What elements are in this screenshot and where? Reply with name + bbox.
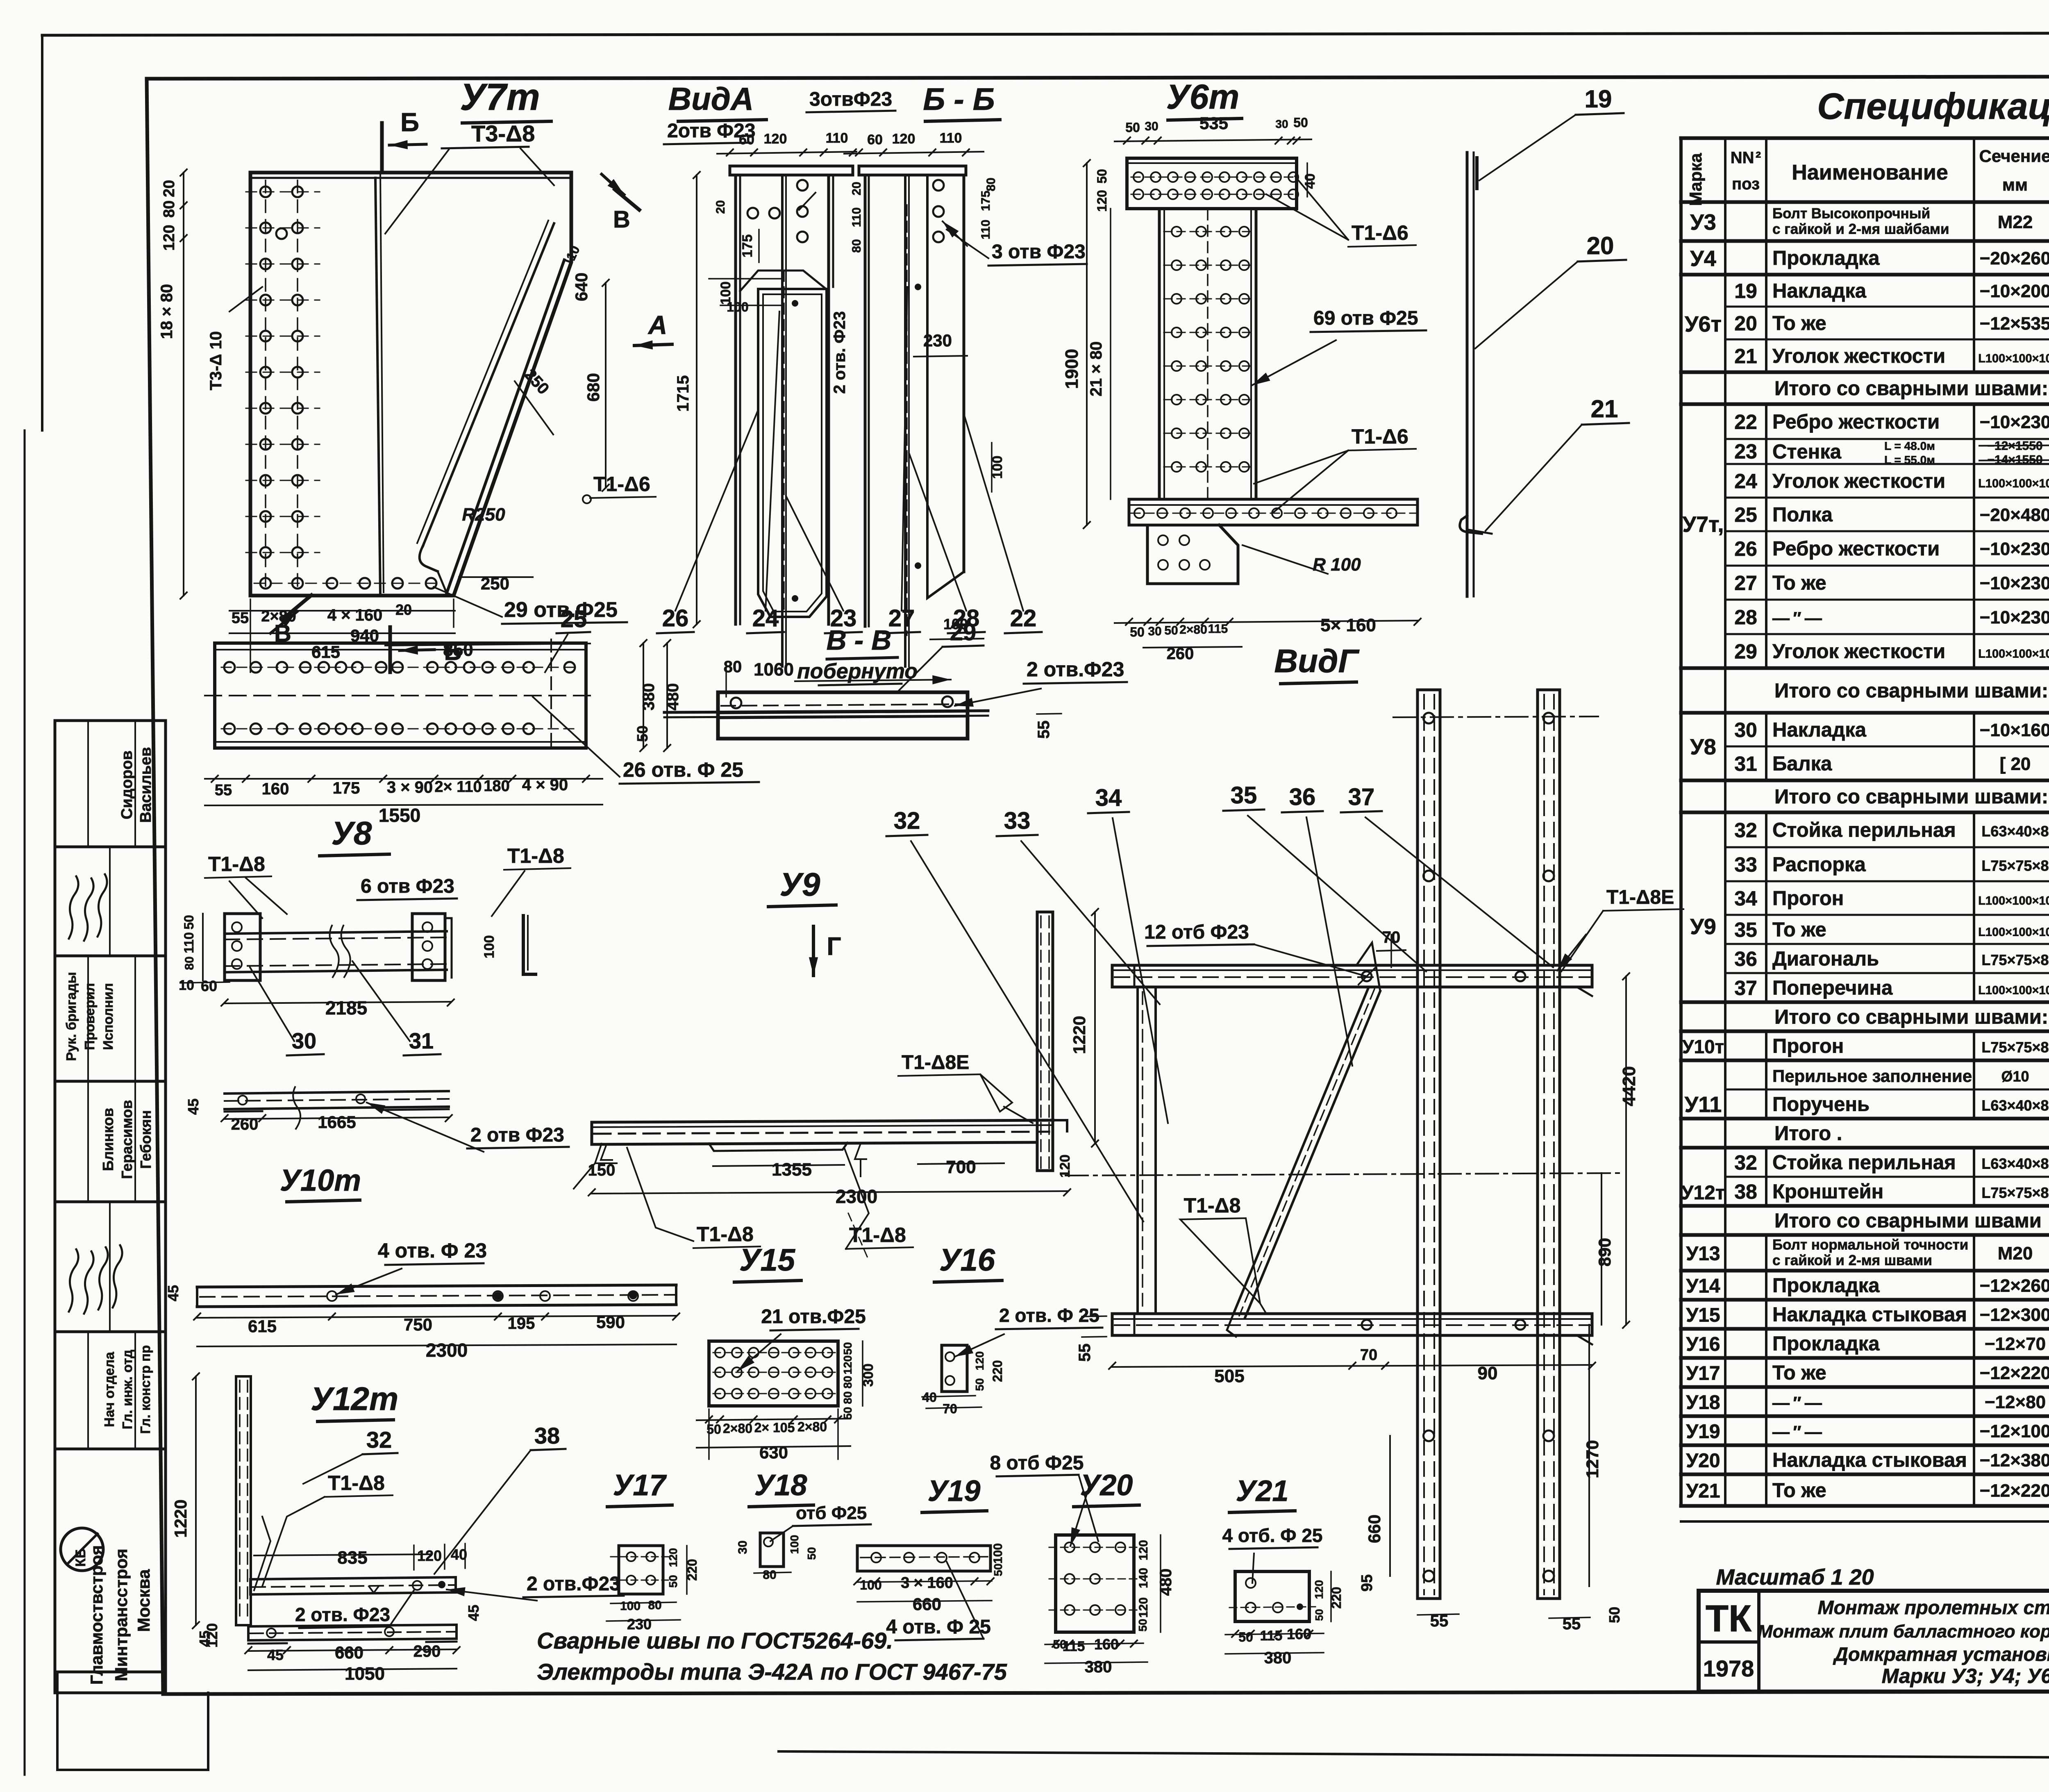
svg-text:L100×100×10: L100×100×10 <box>1978 984 2049 997</box>
svg-text:835: 835 <box>337 1548 367 1568</box>
frame Vid G ladder <box>886 643 1683 1633</box>
svg-text:30: 30 <box>1275 118 1288 130</box>
svg-text:12 отб Ф23: 12 отб Ф23 <box>1144 921 1249 943</box>
svg-text:80: 80 <box>841 1376 854 1388</box>
svg-text:6 отв Ф23: 6 отв Ф23 <box>361 876 454 897</box>
svg-text:1060: 1060 <box>754 659 794 680</box>
svg-text:45: 45 <box>196 1631 213 1647</box>
svg-text:У19: У19 <box>1686 1421 1720 1443</box>
svg-text:1665: 1665 <box>318 1112 356 1132</box>
svg-text:L100×100×10: L100×100×10 <box>1978 894 2049 907</box>
svg-text:Рук. бригады: Рук. бригады <box>64 972 79 1061</box>
svg-text:с гайкой и 2-мя швами: с гайкой и 2-мя швами <box>1772 1253 1932 1269</box>
svg-text:110: 110 <box>826 130 848 146</box>
svg-text:То же: То же <box>1772 1362 1826 1384</box>
svg-text:Домкратная установка. Детали: Домкратная установка. Детали . <box>1833 1643 2049 1665</box>
svg-text:180: 180 <box>484 778 509 795</box>
svg-text:32: 32 <box>894 807 920 834</box>
svg-text:Стойка перильная: Стойка перильная <box>1772 819 1956 841</box>
svg-text:660: 660 <box>335 1643 363 1662</box>
svg-text:L100×100×10: L100×100×10 <box>1978 926 2049 939</box>
svg-text:2 отв. Ф 25: 2 отв. Ф 25 <box>999 1305 1099 1326</box>
svg-text:−10×230: −10×230 <box>1980 607 2049 628</box>
svg-text:ТК: ТК <box>1706 1598 1752 1640</box>
svg-text:50: 50 <box>1125 120 1140 135</box>
svg-text:50: 50 <box>1313 1609 1325 1621</box>
svg-text:Накладка стыковая: Накладка стыковая <box>1772 1304 1967 1326</box>
svg-text:L63×40×8: L63×40×8 <box>1981 1097 2049 1114</box>
svg-text:45: 45 <box>185 1098 202 1115</box>
svg-text:80: 80 <box>161 200 178 218</box>
svg-text:Гл. инж. отд: Гл. инж. отд <box>120 1350 135 1429</box>
svg-text:110: 110 <box>940 130 962 146</box>
svg-text:80: 80 <box>850 239 863 252</box>
svg-text:[ 20: [ 20 <box>2000 754 2031 774</box>
svg-text:35: 35 <box>1734 919 1757 941</box>
svg-text:То же: То же <box>1772 572 1826 594</box>
svg-text:Т1-Δ6: Т1-Δ6 <box>1352 221 1408 244</box>
svg-text:Б: Б <box>400 107 419 137</box>
svg-text:— ″ —: — ″ — <box>1772 1393 1822 1412</box>
svg-text:То же: То же <box>1772 1480 1826 1502</box>
svg-text:L75×75×8: L75×75×8 <box>1981 1039 2049 1056</box>
svg-text:−12×70: −12×70 <box>1985 1334 2046 1354</box>
svg-text:120: 120 <box>1137 1597 1150 1618</box>
svg-text:29: 29 <box>1734 640 1757 663</box>
svg-text:Исполнил: Исполнил <box>100 983 116 1050</box>
svg-text:750: 750 <box>404 1315 432 1334</box>
svg-text:20: 20 <box>161 180 178 197</box>
svg-text:30: 30 <box>736 1540 750 1554</box>
svg-text:140: 140 <box>1137 1568 1150 1588</box>
plate U7t <box>158 76 672 672</box>
svg-text:У15: У15 <box>1686 1305 1720 1326</box>
svg-text:34: 34 <box>1734 887 1757 910</box>
svg-text:Сечение: Сечение <box>1979 146 2049 166</box>
svg-text:−12×100: −12×100 <box>1980 1421 2049 1442</box>
svg-text:L75×75×8: L75×75×8 <box>1981 857 2049 874</box>
svg-text:45: 45 <box>465 1605 482 1621</box>
svg-text:21 отв.Ф25: 21 отв.Ф25 <box>761 1306 866 1328</box>
svg-text:−12×220: −12×220 <box>1980 1481 2049 1501</box>
svg-text:21: 21 <box>1734 345 1757 368</box>
svg-text:ВидА: ВидА <box>668 81 754 117</box>
svg-text:2× 110: 2× 110 <box>434 778 482 796</box>
svg-text:80: 80 <box>841 1391 854 1404</box>
svg-text:2 отв. Ф23: 2 отв. Ф23 <box>831 311 849 394</box>
beam U9 <box>574 866 1098 1260</box>
svg-text:Прогон: Прогон <box>1772 1035 1844 1057</box>
svg-text:Монтаж плит балластного корыта: Монтаж плит балластного корыта с клеевым… <box>1758 1621 2049 1642</box>
svg-text:ВидГ: ВидГ <box>1274 643 1360 679</box>
svg-text:25: 25 <box>561 606 587 632</box>
svg-text:700: 700 <box>946 1157 976 1177</box>
svg-text:50: 50 <box>1130 625 1145 639</box>
svg-text:1355: 1355 <box>772 1160 812 1180</box>
svg-text:31: 31 <box>409 1029 434 1053</box>
svg-text:26 отв. Ф 25: 26 отв. Ф 25 <box>623 758 743 781</box>
svg-text:У20: У20 <box>1080 1469 1133 1502</box>
svg-text:220: 220 <box>990 1360 1005 1382</box>
svg-text:19: 19 <box>1734 280 1757 302</box>
svg-text:У15: У15 <box>739 1243 796 1278</box>
svg-text:Прокладка: Прокладка <box>1772 1275 1880 1297</box>
svg-text:660: 660 <box>1365 1515 1384 1543</box>
svg-text:То же: То же <box>1772 312 1826 334</box>
svg-text:2×80: 2×80 <box>1179 623 1207 637</box>
svg-text:120: 120 <box>973 1351 986 1371</box>
svg-text:4420: 4420 <box>1619 1066 1639 1106</box>
svg-text:1220: 1220 <box>1070 1016 1089 1054</box>
svg-text:Ø10: Ø10 <box>2001 1068 2029 1085</box>
svg-text:Г: Г <box>827 932 841 961</box>
svg-text:У21: У21 <box>1686 1480 1720 1502</box>
svg-text:Итого .: Итого . <box>1774 1123 1842 1145</box>
svg-text:120: 120 <box>764 131 787 147</box>
svg-text:1550: 1550 <box>379 805 420 826</box>
svg-text:175: 175 <box>333 779 360 797</box>
svg-text:Уголок жесткости: Уголок жесткости <box>1772 470 1945 492</box>
svg-text:590: 590 <box>596 1312 625 1332</box>
svg-text:90: 90 <box>1478 1363 1498 1383</box>
svg-text:2185: 2185 <box>325 997 367 1019</box>
svg-text:50: 50 <box>1293 115 1308 130</box>
svg-text:Кронштейн: Кронштейн <box>1772 1181 1883 1203</box>
section B-B view <box>657 82 1087 666</box>
svg-text:4 × 90: 4 × 90 <box>522 776 568 794</box>
svg-text:4 отв. Ф 23: 4 отв. Ф 23 <box>378 1239 487 1262</box>
svg-text:55: 55 <box>215 782 232 799</box>
svg-text:615: 615 <box>248 1317 277 1336</box>
svg-text:— ″ —: — ″ — <box>1772 1422 1822 1442</box>
svg-text:36: 36 <box>1289 784 1316 810</box>
svg-text:отб Ф25: отб Ф25 <box>796 1503 867 1523</box>
svg-text:Т1-Δ8: Т1-Δ8 <box>1184 1194 1241 1217</box>
svg-text:У12т: У12т <box>311 1380 398 1417</box>
svg-text:80: 80 <box>648 1599 661 1612</box>
svg-text:L100×100×10: L100×100×10 <box>1978 352 2049 365</box>
plate U21 <box>1222 1475 1344 1667</box>
svg-text:55: 55 <box>1076 1344 1094 1362</box>
svg-text:У7т,: У7т, <box>1682 512 1724 537</box>
plate U17 <box>607 1469 700 1633</box>
svg-text:L100×100×10: L100×100×10 <box>1978 648 2049 661</box>
svg-text:Итого со сварными швами:: Итого со сварными швами: <box>1774 786 2048 808</box>
svg-text:М20: М20 <box>1998 1244 2033 1264</box>
svg-text:50: 50 <box>1053 1638 1066 1651</box>
svg-text:1715: 1715 <box>674 375 692 412</box>
svg-text:505: 505 <box>1214 1366 1244 1386</box>
svg-text:3 × 90: 3 × 90 <box>387 778 433 796</box>
svg-text:Герасимов: Герасимов <box>118 1100 135 1179</box>
svg-text:В: В <box>613 206 630 233</box>
svg-text:60: 60 <box>201 978 217 994</box>
svg-text:18 × 80: 18 × 80 <box>158 284 176 339</box>
svg-text:Поручень: Поручень <box>1772 1094 1870 1116</box>
svg-text:10: 10 <box>179 978 194 993</box>
svg-text:−10×230: −10×230 <box>1980 412 2049 432</box>
svg-text:У8: У8 <box>332 815 372 851</box>
svg-text:Т1-Δ8Е: Т1-Δ8Е <box>1606 887 1674 908</box>
svg-text:−12×535: −12×535 <box>1980 314 2049 334</box>
svg-text:120: 120 <box>161 225 178 250</box>
svg-text:28: 28 <box>1734 606 1757 629</box>
svg-text:890: 890 <box>1595 1238 1614 1267</box>
svg-text:Сидоров: Сидоров <box>118 750 136 819</box>
svg-text:50: 50 <box>1606 1607 1623 1623</box>
svg-text:8 отб Ф25: 8 отб Ф25 <box>990 1452 1084 1474</box>
svg-text:70: 70 <box>943 1401 957 1416</box>
svg-text:120: 120 <box>892 131 915 147</box>
svg-text:1220: 1220 <box>171 1499 190 1537</box>
svg-text:Минтрансстроя: Минтрансстроя <box>111 1549 131 1681</box>
svg-text:24: 24 <box>1734 470 1757 493</box>
svg-text:мм: мм <box>2002 175 2028 194</box>
svg-text:290: 290 <box>413 1642 441 1660</box>
svg-text:У4: У4 <box>1690 246 1716 271</box>
svg-text:Т1-Δ8: Т1-Δ8 <box>507 844 564 867</box>
svg-text:100: 100 <box>482 935 497 959</box>
side view bar items 19-21 <box>1460 85 1629 596</box>
svg-text:Уголок жесткости: Уголок жесткости <box>1772 345 1945 367</box>
svg-text:−10×230: −10×230 <box>1980 573 2049 594</box>
svg-text:535: 535 <box>1199 114 1228 133</box>
svg-text:КБ: КБ <box>73 1548 89 1567</box>
plate U18 <box>736 1469 871 1582</box>
svg-text:М22: М22 <box>1998 212 2033 232</box>
svg-text:У6т: У6т <box>1685 312 1722 337</box>
svg-text:Монтаж пролетных строений 1: Монтаж пролетных строений 18,2÷55.0 м <box>1817 1596 2049 1618</box>
svg-text:37: 37 <box>1734 977 1757 1000</box>
svg-text:Т1-Δ8Е: Т1-Δ8Е <box>902 1052 969 1073</box>
svg-text:NN ²: NN ² <box>1731 149 1761 167</box>
svg-text:У14: У14 <box>1686 1276 1720 1297</box>
svg-text:20: 20 <box>395 601 412 618</box>
svg-text:615: 615 <box>311 642 340 662</box>
svg-text:50: 50 <box>992 1563 1004 1576</box>
svg-text:−10×230: −10×230 <box>1980 539 2049 559</box>
svg-text:3 отв Ф23: 3 отв Ф23 <box>992 241 1086 263</box>
svg-text:21: 21 <box>1591 395 1618 423</box>
svg-text:630: 630 <box>759 1443 788 1462</box>
svg-text:50: 50 <box>805 1547 818 1560</box>
svg-text:Итого со сварными швами:: Итого со сварными швами: <box>1774 1006 2048 1028</box>
svg-text:L = 55.0м: L = 55.0м <box>1884 454 1935 466</box>
svg-text:1270: 1270 <box>1583 1440 1602 1478</box>
svg-text:480: 480 <box>1157 1569 1175 1596</box>
view Vid A <box>664 81 895 666</box>
svg-text:120: 120 <box>1095 190 1109 211</box>
svg-text:23: 23 <box>1734 440 1757 463</box>
svg-text:Т1-Δ8: Т1-Δ8 <box>697 1223 754 1246</box>
svg-text:50: 50 <box>841 1342 854 1355</box>
svg-text:Т1-Δ6: Т1-Δ6 <box>1352 425 1408 448</box>
svg-text:380: 380 <box>1085 1658 1112 1676</box>
svg-text:— ″ —: — ″ — <box>1772 608 1822 628</box>
column U6t <box>1062 77 1426 663</box>
svg-text:−20×260: −20×260 <box>1980 248 2049 268</box>
svg-text:120: 120 <box>417 1547 442 1564</box>
strip plate 1550 item 25 <box>205 606 759 826</box>
plate U15 <box>697 1243 876 1462</box>
svg-text:У10т: У10т <box>1682 1036 1724 1057</box>
svg-text:Итого со сварными швами: Итого со сварными швами <box>1774 1210 2042 1232</box>
svg-text:50: 50 <box>1095 169 1109 184</box>
svg-text:50: 50 <box>182 915 196 930</box>
svg-text:45: 45 <box>267 1646 284 1663</box>
svg-text:69 отв Ф25: 69 отв Ф25 <box>1313 307 1418 329</box>
svg-text:32: 32 <box>1734 819 1757 842</box>
svg-text:60: 60 <box>739 132 754 148</box>
svg-text:115: 115 <box>1260 1628 1283 1644</box>
svg-text:У18: У18 <box>754 1469 807 1502</box>
svg-text:3 × 160: 3 × 160 <box>901 1574 953 1592</box>
assembly U8 <box>179 815 570 1055</box>
svg-text:1050: 1050 <box>345 1664 385 1684</box>
svg-text:У17: У17 <box>613 1469 667 1502</box>
svg-text:Распорка: Распорка <box>1772 854 1866 876</box>
svg-text:100: 100 <box>620 1599 641 1613</box>
svg-text:У18: У18 <box>1686 1392 1720 1414</box>
svg-text:В - В: В - В <box>827 625 892 656</box>
svg-text:175: 175 <box>979 191 993 211</box>
svg-text:Накладка: Накладка <box>1772 280 1867 302</box>
svg-text:У8: У8 <box>1690 735 1716 760</box>
svg-text:Сварные швы по ГОСТ5264-69.: Сварные швы по ГОСТ5264-69. <box>537 1628 893 1653</box>
svg-text:50: 50 <box>973 1378 986 1391</box>
svg-text:640: 640 <box>572 273 591 301</box>
svg-text:Т1-Δ8: Т1-Δ8 <box>328 1471 385 1494</box>
svg-text:поз: поз <box>1732 175 1760 193</box>
svg-text:−10×160: −10×160 <box>1980 720 2049 740</box>
svg-text:2300: 2300 <box>426 1339 468 1361</box>
svg-text:30: 30 <box>1148 625 1161 638</box>
svg-text:Накладка: Накладка <box>1772 719 1867 741</box>
svg-text:Проверил: Проверил <box>82 983 97 1050</box>
svg-text:L75×75×8: L75×75×8 <box>1981 1185 2049 1201</box>
svg-text:38: 38 <box>534 1423 560 1449</box>
svg-text:55: 55 <box>1035 721 1053 739</box>
svg-text:100: 100 <box>727 300 748 314</box>
svg-text:80: 80 <box>183 956 196 970</box>
svg-text:Блинков: Блинков <box>100 1108 116 1171</box>
svg-text:50: 50 <box>1238 1630 1253 1644</box>
svg-text:175: 175 <box>740 234 755 258</box>
svg-text:22: 22 <box>1734 411 1757 434</box>
svg-text:120: 120 <box>1137 1540 1150 1560</box>
svg-text:2300: 2300 <box>836 1186 877 1207</box>
svg-text:Т3-Δ8: Т3-Δ8 <box>471 121 535 146</box>
svg-text:120: 120 <box>1313 1580 1325 1599</box>
title block <box>1699 1530 2049 1692</box>
svg-text:У19: У19 <box>928 1475 981 1508</box>
svg-text:50: 50 <box>1164 624 1178 637</box>
svg-text:110: 110 <box>182 932 196 953</box>
svg-text:А: А <box>647 310 667 340</box>
svg-text:Ребро жесткости: Ребро жесткости <box>1772 538 1940 560</box>
svg-text:У16: У16 <box>1686 1334 1720 1355</box>
svg-text:Москва: Москва <box>134 1569 153 1632</box>
svg-text:Итого со сварными швами:: Итого со сварными швами: <box>1774 680 2048 702</box>
svg-text:Масштаб 1 20: Масштаб 1 20 <box>1716 1565 1874 1590</box>
svg-text:Спецификация металла: Спецификация металла <box>1817 86 2049 127</box>
svg-text:110: 110 <box>850 207 863 227</box>
svg-text:У11: У11 <box>1685 1092 1722 1117</box>
svg-text:230: 230 <box>923 331 952 350</box>
svg-text:У9: У9 <box>780 866 820 903</box>
svg-text:1900: 1900 <box>1062 349 1082 389</box>
svg-text:33: 33 <box>1734 853 1757 876</box>
svg-text:Ребро жесткости: Ребро жесткости <box>1772 411 1940 433</box>
svg-text:2 отв.Ф23: 2 отв.Ф23 <box>527 1573 620 1595</box>
svg-text:33: 33 <box>1004 807 1031 834</box>
svg-text:с гайкой и 2-мя шайбами: с гайкой и 2-мя шайбами <box>1772 221 1949 237</box>
svg-text:У9: У9 <box>1690 914 1716 939</box>
svg-text:36: 36 <box>1734 948 1757 971</box>
svg-text:Итого со сварными швами:: Итого со сварными швами: <box>1774 378 2048 400</box>
svg-text:R250: R250 <box>462 505 505 525</box>
svg-text:Гл. констр пр: Гл. констр пр <box>138 1345 153 1434</box>
svg-text:Наименование: Наименование <box>1792 161 1948 184</box>
svg-text:32: 32 <box>1734 1151 1757 1174</box>
svg-text:Электроды типа Э-42А по ГО: Электроды типа Э-42А по ГОСТ 9467-75 <box>537 1659 1007 1685</box>
svg-text:Б - Б: Б - Б <box>923 82 995 117</box>
svg-text:50: 50 <box>634 725 651 742</box>
svg-text:30: 30 <box>1734 719 1757 741</box>
svg-text:−12×260: −12×260 <box>1980 1276 2049 1296</box>
svg-text:Т1-Δ8: Т1-Δ8 <box>849 1223 906 1246</box>
svg-text:L = 48.0м: L = 48.0м <box>1884 440 1935 453</box>
svg-text:2× 105: 2× 105 <box>754 1420 795 1435</box>
svg-text:Прокладка: Прокладка <box>1772 1333 1880 1355</box>
svg-text:У20: У20 <box>1686 1450 1720 1472</box>
svg-text:Марка: Марка <box>1686 153 1705 206</box>
svg-text:Болт Высокопрочный: Болт Высокопрочный <box>1772 206 1930 222</box>
svg-text:У16: У16 <box>939 1243 995 1278</box>
svg-text:20: 20 <box>1734 312 1757 335</box>
svg-text:19: 19 <box>1585 85 1612 113</box>
svg-text:−20×480: −20×480 <box>1980 505 2049 525</box>
svg-text:Диагональ: Диагональ <box>1772 948 1879 970</box>
svg-text:115: 115 <box>1208 622 1228 636</box>
svg-text:L63×40×8: L63×40×8 <box>1981 823 2049 840</box>
stamp column <box>55 721 208 1770</box>
svg-text:35: 35 <box>1231 782 1257 809</box>
svg-text:5× 160: 5× 160 <box>1320 615 1376 635</box>
svg-text:2 отв.Ф23: 2 отв.Ф23 <box>1027 658 1124 681</box>
svg-text:У3: У3 <box>1690 210 1716 235</box>
svg-text:50: 50 <box>841 1407 854 1419</box>
svg-text:32: 32 <box>366 1427 392 1453</box>
svg-text:38: 38 <box>1734 1180 1757 1203</box>
svg-text:Перильное заполнение: Перильное заполнение <box>1772 1067 1972 1086</box>
svg-text:Т1-Δ6: Т1-Δ6 <box>593 473 650 496</box>
svg-text:20: 20 <box>850 182 863 195</box>
svg-text:Болт нормальной точности: Болт нормальной точности <box>1772 1237 1968 1253</box>
svg-text:660: 660 <box>913 1594 941 1614</box>
svg-text:L75×75×8: L75×75×8 <box>1981 952 2049 969</box>
svg-text:У12т: У12т <box>1681 1182 1725 1204</box>
svg-text:У13: У13 <box>1686 1243 1720 1265</box>
svg-text:380: 380 <box>640 683 658 711</box>
svg-text:34: 34 <box>1095 785 1122 811</box>
svg-text:−12×300: −12×300 <box>1980 1305 2049 1325</box>
svg-text:2×80: 2×80 <box>723 1421 752 1436</box>
svg-text:−12×220: −12×220 <box>1980 1363 2049 1383</box>
svg-text:−12×380: −12×380 <box>1980 1451 2049 1471</box>
svg-text:Стойка перильная: Стойка перильная <box>1772 1152 1956 1174</box>
svg-text:195: 195 <box>508 1314 535 1333</box>
